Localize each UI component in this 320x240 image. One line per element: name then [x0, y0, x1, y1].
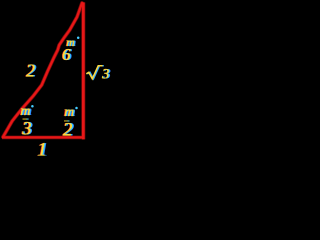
node bottom-left angle label m	[20, 104, 34, 119]
node hypotenuse length label 2	[25, 61, 37, 81]
svg-text:6: 6	[62, 45, 71, 64]
node bottom-right m tail mark	[64, 120, 70, 121]
node label 6	[61, 45, 73, 64]
wire vertical right side of triangle	[82, 2, 85, 139]
wire hypotenuse halo	[3, 3, 82, 137]
svg-text:m: m	[20, 104, 30, 119]
node bottom-left m tail mark	[23, 118, 29, 119]
wire horizontal side halo	[2, 136, 85, 140]
node label 3	[20, 120, 33, 140]
wire vertical side halo	[81, 2, 85, 139]
svg-text:3: 3	[101, 66, 109, 82]
node bottom-right angle label m	[63, 104, 78, 119]
node label 2	[62, 120, 75, 141]
svg-text:2: 2	[63, 120, 73, 141]
svg-text:m: m	[64, 104, 74, 119]
wire horizontal bottom side of triangle	[2, 136, 85, 138]
node sqrt3 label right side	[86, 66, 111, 83]
svg-text:2: 2	[26, 61, 35, 81]
background	[0, 0, 113, 159]
svg-text:1: 1	[37, 139, 47, 159]
wire hypotenuse (red slanted side of triangle)	[3, 3, 82, 137]
node top angle label m	[65, 36, 79, 48]
svg-text:3: 3	[21, 120, 31, 140]
node bottom length label 1	[36, 139, 48, 160]
